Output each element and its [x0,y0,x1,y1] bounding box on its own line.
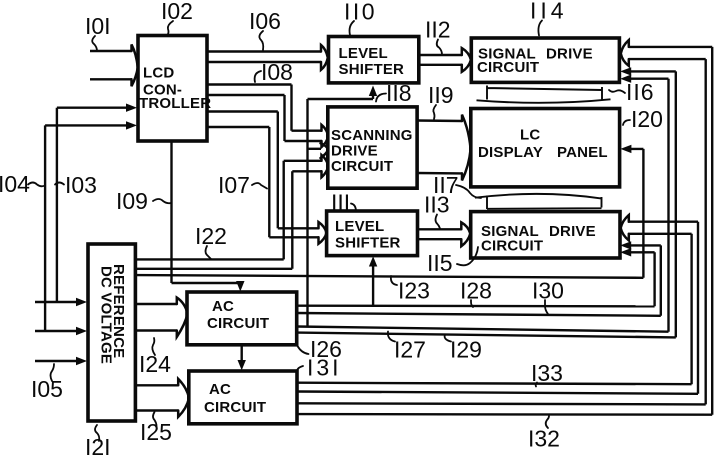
big arrowhead A into scanning drive circuit [322,125,329,147]
wire 105 input line [35,360,81,362]
arrow into reference box (wire 104 bottom) [76,327,87,335]
wire AC circuit 131 output line 3 [297,403,706,404]
svg-text:II5: II5 [427,250,453,276]
wire LCD output o6 down to level shifter 111 [207,127,319,237]
svg-text:LEVEL: LEVEL [339,45,388,62]
wire L4 from bus 122 up to scanning drive circuit [292,171,321,268]
feedback wire to signal drive 115 line 2 [630,234,692,384]
wire 109 LCD bottom output to AC circuit 126 [172,141,241,287]
svg-text:I27: I27 [394,337,426,363]
label 114 [530,0,568,36]
label 133 [531,360,563,387]
wire bus 119 scanning drive to LC display panel [417,121,462,174]
box level shifter 111 [327,211,418,256]
arrow into LCD (wire 104) [126,121,137,129]
svg-text:SCANNING: SCANNING [331,127,413,144]
feedback wire small 1 into signal drive 114 [626,71,676,337]
svg-text:CIRCUIT: CIRCUIT [204,399,266,416]
svg-text:I33: I33 [531,360,563,386]
big arrowhead into LCD controller left edge [132,45,138,87]
big arrowhead into signal drive 114 right edge [621,40,629,66]
wire reference voltage line h2 [135,268,292,270]
big arrowhead into signal drive 115 right edge [621,215,629,240]
feedback wire small 2 into signal drive 114 [626,79,669,332]
svg-text:DC VOLTAGE: DC VOLTAGE [98,266,115,364]
svg-text:TROLLER: TROLLER [139,95,211,112]
label 132 [528,416,560,452]
svg-text:I2I: I2I [85,434,111,457]
svg-text:II7: II7 [433,172,459,198]
label 130 [532,278,564,315]
label 126 [298,336,342,362]
wire bus 125 reference to AC circuit 131 [135,385,178,410]
box AC circuit 131 [189,371,297,424]
svg-text:II2: II2 [425,17,451,43]
wire AC circuit 126 to AC circuit 131 [240,345,242,365]
wire up to level shifter 111 bottom [372,264,374,306]
wire LCD output o5 down to level shifter 111 [207,112,319,229]
svg-text:CIRCUIT: CIRCUIT [331,158,393,175]
label 105 [31,364,63,402]
svg-text:DRIVE: DRIVE [546,46,593,63]
label 131 [297,355,342,381]
svg-text:I22: I22 [195,223,227,249]
label 120 [623,106,663,132]
wire 103 (vertical bus left) [35,108,130,302]
svg-text:I04: I04 [0,171,30,197]
svg-text:I0I: I0I [85,13,111,39]
label 124 [139,338,171,377]
wire 122 reference voltage line h1 [135,258,283,260]
label 110 [344,0,377,35]
svg-text:DRIVE: DRIVE [549,223,596,240]
wire bus 124 reference to AC circuit 126 [135,304,176,331]
label 109 [116,188,171,214]
wire 130 AC circuit 126 output line 2 [297,313,661,316]
label 129 [445,335,482,363]
arrow into LCD (wire 103) [126,104,137,112]
svg-text:LCD: LCD [143,65,174,82]
wire 108 LCD output to scanning drive circuit [207,85,322,131]
arrow up into level shifter 110 bottom [369,86,377,97]
svg-text:II4: II4 [530,0,568,24]
connection bundle 117 between LC panel and signal drive 115 [475,194,602,209]
arrow into reference box (wire 105) [76,357,87,365]
svg-text:I02: I02 [161,0,193,24]
wire 129 AC circuit 126 output line 4 [297,333,676,338]
big arrowhead into LC display panel left edge [462,115,471,181]
svg-text:SHIFTER: SHIFTER [335,235,401,252]
svg-text:CIRCUIT: CIRCUIT [207,315,269,332]
feedback wire to signal drive 114 line 1 [629,47,712,415]
box signal drive circuit 115 [471,212,620,258]
svg-text:DRIVE: DRIVE [331,143,378,160]
svg-text:SHIFTER: SHIFTER [339,61,405,78]
svg-text:I28: I28 [460,278,492,304]
svg-text:II6: II6 [626,79,655,105]
wire bus 113 level shifter 111 to signal drive circuit 115 [418,229,462,239]
label 103 [55,172,97,198]
svg-text:I23: I23 [398,278,430,304]
label 121 [85,425,111,457]
svg-text:LEVEL: LEVEL [335,218,384,235]
label 104 [0,171,45,197]
feedback wire 123 into LC display panel right edge [626,149,643,278]
feedback wire to signal drive 114 line 2 [629,59,706,404]
svg-text:DISPLAY: DISPLAY [478,144,543,161]
wire 118 branch up to level shifter 110 bottom [308,93,374,327]
svg-text:III: III [331,190,350,216]
label 113 [424,192,450,229]
wire input 101 line B [90,78,132,80]
label 106 [249,8,281,50]
box LC display panel 120 [471,109,620,187]
svg-text:PANEL: PANEL [557,144,608,161]
box AC circuit 126 [187,292,297,345]
wire L3 from bus 122 up to scanning drive circuit [284,161,322,260]
arrowhead B into scanning drive circuit [321,143,329,158]
svg-text:II0: II0 [344,0,377,25]
label 112 [425,17,451,55]
label 115 [427,247,478,276]
label 108 [255,59,293,85]
svg-text:I32: I32 [528,426,560,452]
wire AC circuit 131 output line 2 [297,392,698,394]
box scanning drive circuit [328,107,417,188]
svg-text:I05: I05 [31,376,63,402]
box reference DC voltage 121 [88,244,135,421]
big arrowhead into AC circuit 126 [177,298,188,337]
wire input 101 line A [90,50,132,52]
arrow into reference box (wire 103 bottom) [76,298,87,306]
svg-text:I08: I08 [261,59,293,85]
label 119 [428,82,454,119]
svg-text:I07: I07 [218,172,250,198]
wire 104 (outer vertical bus left) [35,125,130,331]
svg-text:I09: I09 [116,188,148,214]
connection bundle 116 between signal drive 114 and LC panel [477,86,611,103]
svg-text:CIRCUIT: CIRCUIT [481,238,543,255]
feedback wire to signal drive 115 line 1 [630,222,699,394]
label 111 [331,190,356,216]
label 101 [85,13,111,51]
svg-text:I03: I03 [65,172,97,198]
box level shifter 110 [329,37,419,83]
big arrowhead into level shifter 111 [319,222,327,244]
wire 128 AC circuit 126 output line 1 [297,305,655,308]
wire 133 AC circuit 131 output line 1 [297,383,692,385]
label 116 [609,79,655,105]
label 118 [376,80,412,106]
label 102 [161,0,193,34]
big arrowhead into signal drive circuit 115 [461,222,470,246]
wire LCD output o4 [207,95,322,141]
box signal drive circuit 114 [471,38,619,82]
wire bus 106 LCD to level shifter 110 [207,52,321,63]
svg-text:II9: II9 [428,82,454,108]
label 123 [391,276,430,304]
label 127 [388,332,426,363]
svg-text:II8: II8 [386,80,412,106]
big arrowhead C into scanning drive circuit [322,155,329,177]
svg-text:AC: AC [209,381,231,398]
svg-text:CIRCUIT: CIRCUIT [477,59,539,76]
svg-text:I30: I30 [532,278,564,304]
big arrowhead into signal drive circuit 114 [462,48,471,72]
feedback wire small 1 into signal drive 115 [626,245,661,315]
wire bus 112 level shifter 110 to signal drive circuit 114 [419,55,462,65]
svg-text:I20: I20 [631,106,663,132]
label 122 [195,223,227,259]
svg-text:AC: AC [212,298,234,315]
label 125 [140,412,172,445]
big arrowhead into AC circuit 131 [178,379,189,417]
wire 123 reference voltage line h3 [135,275,643,278]
svg-text:I29: I29 [450,337,482,363]
label 117 [433,172,481,198]
wire stub to arrow B [308,148,322,150]
label 128 [460,278,492,308]
svg-text:LC: LC [520,127,540,144]
svg-text:I06: I06 [249,8,281,34]
big arrowhead into level shifter 110 [321,45,328,70]
box LCD controller 102 [138,36,211,142]
svg-text:I3I: I3I [307,355,342,381]
feedback wire small 2 into signal drive 115 [626,252,655,306]
wire 132 AC circuit 131 output line 4 [297,413,712,416]
label 107 [218,172,267,198]
wire 127 AC circuit 126 output line 3 [297,327,669,332]
